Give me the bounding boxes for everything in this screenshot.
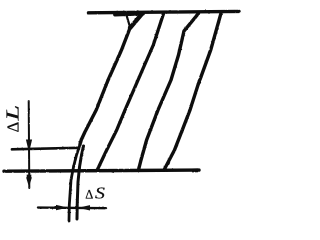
top surface line thickened segment at slip fork (115, 14, 143, 15)
dimension line for dS (38, 206, 106, 209)
slip plane line B (97, 14, 163, 171)
svg-text:L: L (4, 105, 23, 122)
slip plane line C (kinked at top) (139, 14, 199, 170)
label dS (85, 184, 105, 203)
arrowhead dL upper (down) (26, 140, 32, 153)
svg-text:Δ: Δ (4, 122, 23, 133)
upper shear layer boundary line (left) (12, 148, 79, 150)
svg-text:Δ: Δ (85, 187, 93, 201)
line A lower-left sheared segment / dS left extension (69, 145, 80, 222)
line A fork right branch (displaced position) (130, 13, 143, 28)
dimension leader vertical line for dL (28, 101, 31, 188)
line A lower-right original segment / dS right extension (77, 146, 84, 219)
arrowhead dS right (left-pointing) (78, 205, 90, 210)
bottom surface line thickened right end (192, 168, 198, 172)
slip plane line A (leftmost), upper part (80, 28, 130, 145)
top surface line of sheared block (89, 11, 240, 12)
svg-text:S: S (95, 184, 106, 203)
label dL (rotated) (4, 105, 23, 132)
arrowhead dL lower (up) (26, 177, 32, 187)
arrowhead dS left (right-pointing) (56, 205, 68, 210)
slip plane line D (rightmost) (164, 13, 221, 170)
bottom surface line of sheared block (4, 170, 199, 171)
line A fork left branch (original position) (126, 15, 130, 29)
